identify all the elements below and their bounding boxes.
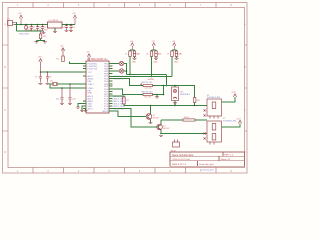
svg-text:ADC7: ADC7 [88, 107, 94, 110]
IC2 right pin names [102, 63, 108, 113]
junction dot LED2 rail [126, 70, 128, 72]
frame inner border [8, 8, 245, 168]
wire IC to LED1 [113, 63, 120, 65]
svg-text:TITLE:: TITLE: [171, 150, 177, 152]
junction dots output rail [66, 24, 72, 26]
svg-text:C8: C8 [72, 27, 74, 29]
svg-text:+12V: +12V [231, 92, 236, 94]
svg-text:VCC: VCC [88, 72, 93, 74]
svg-text:SENSE: SENSE [148, 79, 155, 81]
wire R7 top [113, 96, 125, 106]
supply +5V arrow P3 [39, 59, 42, 72]
junction dots AB [163, 85, 165, 96]
wire SENSE_1 row to cluster3 [113, 76, 173, 78]
wire cluster1 top bar [130, 50, 135, 51]
ground C9 [60, 104, 64, 105]
wire T2 collector [160, 120, 162, 125]
IC2 microcontroller body [86, 61, 109, 113]
svg-text:+12V: +12V [236, 118, 241, 120]
junction dots sense rail [129, 74, 152, 78]
pin crosses K2 [204, 132, 206, 139]
wire diode gnd stub cluster1 [134, 57, 136, 58]
junction dot opto top [174, 85, 176, 87]
svg-text:4148: 4148 [28, 29, 32, 31]
svg-text:ADC5_SCL: ADC5_SCL [114, 108, 126, 111]
wire reset to IC [70, 62, 84, 64]
wire rails drop to opto row [166, 75, 168, 86]
capacitor C11 on wire A [140, 83, 152, 86]
relay K2 labels [223, 118, 237, 122]
junction dot opto bottom [174, 105, 176, 107]
svg-text:C11 10u: C11 10u [145, 88, 152, 90]
svg-text:Drawn By: grbl: Drawn By: grbl [199, 163, 214, 166]
connector X1 [8, 21, 15, 26]
wire cluster2 column [151, 57, 153, 77]
IC2 left pin stubs [83, 64, 86, 109]
wire relay2 bottom row [161, 133, 207, 135]
capacitor C8 [70, 25, 73, 31]
svg-text:R1: R1 [57, 59, 59, 61]
relay K1 body [207, 99, 222, 119]
wire cluster2 top bar [152, 50, 157, 51]
svg-text:GND: GND [174, 62, 179, 64]
net labels IC2 right [114, 76, 127, 111]
junction dots rail y105.5 [150, 105, 196, 107]
resistor R5 on wire B [143, 93, 153, 95]
supply +12V arrow K1 [233, 94, 236, 97]
wire diode gnd stub cluster3 [176, 57, 178, 58]
wire LED2 to rail [123, 70, 126, 72]
junction dot wire B gnd [156, 94, 158, 96]
wire T1 base from IC [113, 111, 147, 117]
supply +5V arrow P1 [19, 15, 22, 24]
supply +5V arrow cluster1 [131, 43, 134, 50]
svg-text:GND: GND [132, 62, 137, 64]
ground T1 [149, 123, 153, 124]
wire crystal to IC XTAL2 [50, 84, 83, 88]
svg-text:1k: 1k [125, 54, 127, 56]
wire T2 emitter [160, 130, 162, 134]
wire AB join vertical [163, 86, 165, 95]
svg-text:SCHRACK-REL: SCHRACK-REL [207, 96, 221, 99]
supply +5V arrow P4 reset pullup [61, 48, 64, 56]
IC2 right pin stubs [109, 64, 113, 112]
wire cluster3 column [171, 57, 173, 77]
wire K2 right to VCC [222, 124, 241, 128]
wire opto bottom pin [174, 101, 176, 106]
LED LED2 [119, 69, 123, 73]
svg-text:BC547: BC547 [163, 128, 170, 130]
wire K1 coil in [204, 105, 208, 107]
wire sense rail y74 [127, 74, 167, 76]
wire IC to LED2 [113, 70, 120, 72]
svg-text:SFH620A-2: SFH620A-2 [180, 93, 191, 96]
diode D3 [155, 51, 158, 57]
svg-text:C: C [4, 109, 6, 112]
ground C10 [68, 104, 72, 105]
frame column ticks top [33, 3, 216, 8]
frame row ticks right [245, 45, 248, 131]
resistor R2 [129, 51, 132, 57]
wire 5V input rail [15, 24, 48, 26]
svg-text:XTAL1: XTAL1 [88, 83, 95, 86]
svg-text:1k: 1k [146, 54, 148, 56]
svg-text:IC1 78L05: IC1 78L05 [49, 20, 59, 22]
diode D1 [25, 25, 27, 32]
svg-text:2018-10-31 13:04: 2018-10-31 13:04 [173, 159, 191, 161]
optocoupler OK1 dot [174, 90, 176, 92]
capacitor C1 [30, 25, 33, 32]
supply +5V arrow cluster2 [152, 43, 155, 50]
svg-text:BC547: BC547 [153, 117, 160, 119]
svg-text:C4: C4 [63, 27, 65, 29]
crystal Q1 [52, 82, 57, 85]
diode D2 [133, 51, 136, 57]
frame row ticks left [3, 45, 9, 131]
LED LED1 [119, 61, 123, 65]
supply +5V arrow P5 AVCC [87, 54, 90, 61]
supply +12V arrow K2 [238, 120, 241, 123]
wire LED1 to rail [123, 64, 126, 75]
svg-text:REV: 1.0: REV: 1.0 [225, 154, 234, 156]
junction dots input rail [20, 24, 43, 26]
jumper JP2 above title block [173, 140, 180, 148]
capacitor C3 [41, 25, 44, 32]
wire R6 bottom to rail [194, 103, 196, 106]
ground C8 [69, 31, 73, 32]
wire A from IC to opto and R6 [113, 79, 195, 98]
wire K1 right to VCC [222, 97, 236, 102]
svg-text:IC2 MEGA328P-AU: IC2 MEGA328P-AU [87, 58, 108, 61]
svg-text:D: D [4, 151, 6, 154]
wire T2 base from IC [113, 109, 159, 128]
wire X1 pin2 to ground rail [15, 22, 44, 31]
voltage regulator IC1 [48, 22, 63, 28]
svg-text:Neue Schaltmatte: Neue Schaltmatte [172, 153, 194, 157]
IC2 left pin names [88, 63, 98, 110]
svg-text:SCHRACK-REL: SCHRACK-REL [223, 120, 237, 123]
frame outer border [3, 3, 248, 174]
ground T2 [159, 136, 163, 137]
svg-text:GND: GND [88, 93, 93, 95]
ground C4 [65, 31, 69, 32]
ground cluster3 [175, 58, 179, 59]
junction dot drop [166, 85, 168, 87]
capacitor C6 [46, 72, 49, 83]
transistor T2 [157, 124, 163, 130]
wire cluster1 column [129, 57, 131, 75]
svg-text:R8 1k: R8 1k [184, 117, 189, 119]
capacitor C5 [39, 72, 42, 83]
wire T2 collector row to relay2 [161, 119, 207, 121]
resistor R6 [193, 98, 196, 103]
svg-text:PD1(TXD): PD1(TXD) [88, 68, 98, 70]
ground JP1 right [43, 42, 47, 43]
svg-text:Sheet: 1/1: Sheet: 1/1 [221, 158, 232, 161]
wire T1 collector [150, 106, 152, 115]
resistor R3 [150, 51, 153, 57]
wire B from IC lower [113, 89, 164, 95]
capacitor C2 [36, 25, 39, 32]
supply +5V arrow P2 [73, 15, 76, 24]
frame column labels [4, 4, 246, 173]
resistor R4 [171, 51, 174, 57]
capacitor C10 [69, 84, 72, 104]
ground IC pin A [76, 107, 80, 108]
relay K1 labels [207, 95, 221, 99]
ground wire B [155, 97, 159, 98]
svg-text:10k: 10k [197, 100, 200, 102]
svg-text:ADC6: ADC6 [102, 110, 108, 113]
wire 5V output rail [62, 24, 75, 26]
optocoupler OK1 [172, 87, 179, 101]
wire opto top pin [174, 86, 176, 88]
svg-text:MATTE_IN2: MATTE_IN2 [142, 90, 154, 93]
svg-text:C6: C6 [49, 77, 51, 79]
wire cluster3 top bar [172, 50, 177, 51]
frame column ticks bottom [33, 168, 216, 174]
wire VCC rail to IC [41, 71, 84, 73]
resistor R1 reset pullup [62, 56, 65, 62]
svg-text:GND: GND [154, 62, 159, 64]
ground input rail [42, 31, 46, 34]
svg-text:Drawn by: grbl: Drawn by: grbl [200, 169, 214, 172]
ground IC pin B [80, 111, 84, 112]
wire T1 emitter [150, 119, 152, 122]
ground regulator [53, 32, 57, 33]
resistor R8 [183, 119, 195, 121]
svg-text:C5: C5 [35, 77, 37, 79]
diode D4 [175, 51, 178, 57]
wire crystal to IC XTAL1 [58, 83, 83, 85]
capacitor C9 [61, 88, 64, 104]
svg-text:100n: 100n [44, 29, 48, 31]
supply +5V arrow cluster3 [173, 43, 176, 50]
wire regulator ground pin [54, 28, 56, 32]
svg-text:1k: 1k [167, 54, 169, 56]
relay K2 body [207, 121, 222, 145]
junction dots crystal [61, 83, 71, 89]
wire diode gnd stub cluster2 [155, 57, 157, 58]
ground C6 [46, 83, 50, 84]
transistor T1 [146, 114, 152, 120]
title block text [172, 153, 234, 166]
wire B gnd stub [156, 95, 158, 97]
wire JP1 to grounds [37, 39, 45, 42]
junction dot T2 emitter [160, 133, 162, 135]
svg-text:+5V: +5V [38, 57, 42, 59]
svg-text:100n: 100n [33, 29, 37, 31]
wire IC GND pins down [78, 104, 86, 111]
ground opto [173, 103, 177, 104]
svg-text:C: C [244, 109, 246, 112]
ground JP1 left [35, 42, 39, 43]
title block [170, 152, 245, 166]
svg-text:EAGLE 24.7.8: EAGLE 24.7.8 [172, 163, 187, 166]
pin crosses K1 [204, 109, 206, 116]
resistor R7 [123, 97, 126, 104]
junction dots VCC rail [40, 71, 49, 73]
wire rail y105.5 [124, 105, 207, 107]
capacitor C4 [65, 25, 68, 31]
svg-text:JP1: JP1 [43, 36, 46, 38]
ground cluster2 [154, 58, 158, 59]
svg-text:GND-USB: GND-USB [19, 33, 29, 35]
svg-text:R5 220: R5 220 [145, 97, 152, 99]
ground cluster1 [133, 58, 137, 59]
jumper JP1 [39, 31, 42, 39]
svg-text:MATTE_IN1: MATTE_IN1 [142, 81, 154, 84]
ground C5 [39, 83, 43, 84]
ground IC pin C [84, 111, 88, 112]
